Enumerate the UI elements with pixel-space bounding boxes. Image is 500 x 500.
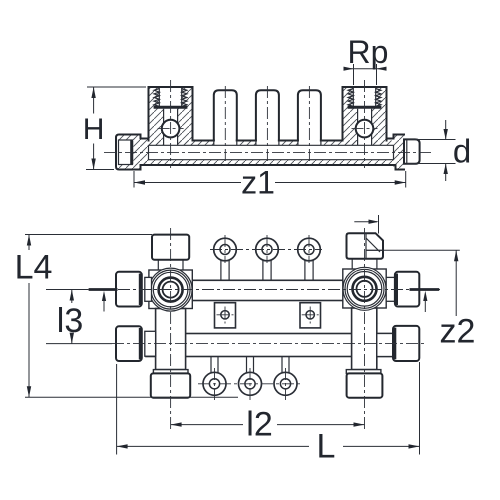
boss vertical centerlines [225, 86, 309, 166]
hatched left tower block [149, 87, 193, 145]
bottom outlet 2 [239, 357, 262, 396]
right assembly top cap [347, 233, 384, 259]
hatched right tower block [343, 87, 387, 145]
bottom outlet 3 [274, 357, 297, 396]
dimension l3 [46, 290, 112, 344]
right tower outline [343, 87, 387, 141]
top outlet 1 [214, 238, 237, 280]
reference thick segment right [410, 288, 440, 291]
dimension L4 [15, 235, 238, 398]
right assembly housing [343, 269, 386, 308]
white channel left tower [164, 107, 178, 146]
bore end walls [149, 145, 394, 159]
svg-text:L4: L4 [15, 249, 53, 287]
right assembly flange [346, 370, 381, 374]
right assembly shaft [352, 308, 377, 370]
white passage gaps under bosses [214, 141, 237, 146]
left cap rail2 [116, 326, 142, 361]
boss 3 [298, 90, 321, 140]
right nub [404, 139, 420, 163]
bar top outline segments [193, 140, 343, 142]
bottom outlets horizontal centerline [198, 383, 302, 385]
left ball [162, 120, 180, 138]
dimension z2 [366, 250, 475, 350]
dimension z1 [134, 165, 406, 201]
boss 1 passage lines [214, 141, 237, 146]
left assembly top cap [152, 235, 189, 260]
bar bottom outline [141, 164, 396, 166]
right assembly bottom cap [347, 373, 383, 397]
right assembly neck [352, 259, 377, 269]
left step edge [141, 138, 149, 140]
boss 2 [256, 90, 279, 140]
top outlets horizontal centerline [210, 249, 322, 251]
svg-text:L: L [317, 428, 336, 466]
left fitting socket [119, 140, 133, 165]
left port boss rail1 [145, 277, 152, 301]
right nub face line [406, 139, 408, 163]
top outlet 2 [256, 238, 279, 280]
right tower vertical centerline [364, 80, 366, 168]
dimension d [407, 120, 471, 181]
left tower outline [149, 87, 193, 141]
hatched bar top wall [149, 141, 394, 146]
left assembly housing [149, 270, 192, 309]
boss 3 passage lines [298, 141, 321, 146]
hatched left end block [116, 135, 149, 170]
l3 reference line left thin [46, 289, 89, 291]
left assembly flange [153, 370, 188, 374]
right port boss rail2 [377, 334, 393, 357]
right ball [356, 120, 374, 138]
svg-text:Rp: Rp [348, 34, 389, 70]
small up arrow right [423, 291, 427, 312]
svg-text:d: d [453, 133, 471, 170]
left socket walls [159, 88, 181, 106]
bottom outlet 1 [203, 357, 226, 396]
left assembly bottom cap [151, 373, 190, 397]
left tower thread left [154, 89, 159, 107]
dimension Rp [344, 34, 389, 85]
right tower thread right [376, 89, 381, 107]
left channel walls [164, 109, 178, 146]
boss 1 [214, 90, 237, 140]
left cap rail1 [116, 272, 142, 307]
svg-text:z2: z2 [440, 313, 476, 351]
hatched bar bottom wall [141, 160, 394, 165]
white socket cavity left tower [159, 88, 181, 107]
right top cap inner lines [366, 233, 383, 259]
rail 2 [146, 334, 392, 357]
rail1 centerline [118, 289, 440, 291]
white socket cavity right tower [353, 88, 375, 107]
right ball horizontal centerline [352, 128, 378, 130]
left assembly neck [158, 260, 183, 270]
bar bore inner walls [149, 145, 394, 159]
l3 reference thick segment left [89, 288, 118, 291]
rail 1 [146, 280, 392, 300]
svg-text:l3: l3 [57, 302, 83, 340]
dimension H [83, 87, 146, 170]
left socket floor [154, 106, 188, 109]
dimension L [117, 362, 420, 466]
z1 extension left [133, 171, 135, 188]
mounting tab 2 [300, 303, 321, 328]
left ball horizontal centerline [158, 128, 184, 130]
right port boss rail1 [386, 277, 395, 301]
left port boss rail2 [145, 331, 156, 356]
right tower thread left [348, 89, 353, 107]
right cap rail2 [393, 326, 419, 361]
right step edge [387, 138, 394, 140]
mounting tab 1 [215, 303, 236, 328]
top outlet vertical centerlines [225, 235, 309, 263]
svg-text:l2: l2 [246, 406, 272, 444]
left tower vertical centerline [170, 80, 172, 168]
small top dimension arrow right cap [354, 215, 379, 234]
left fitting socket end wall [130, 141, 133, 165]
right assembly vertical centerline [364, 228, 366, 430]
dimension l2 [171, 406, 365, 444]
left assembly shaft [156, 309, 186, 370]
left tower thread right [182, 89, 187, 107]
right cap rail1 [395, 272, 419, 307]
svg-text:H: H [83, 113, 105, 146]
right socket walls [353, 88, 375, 106]
left assembly vertical centerline [170, 228, 172, 430]
white channel right tower [358, 107, 372, 146]
right valve rings [343, 267, 386, 310]
small up arrow left [102, 291, 106, 312]
rail2 centerline [112, 343, 424, 345]
right channel walls [358, 109, 372, 146]
left valve rings [149, 268, 192, 311]
right socket floor [348, 106, 382, 109]
hatched right flange [394, 135, 405, 170]
boss 2 passage lines [256, 141, 279, 146]
svg-text:z1: z1 [241, 165, 275, 201]
top outlet 3 [298, 238, 321, 280]
left fitting outline [116, 135, 141, 170]
right flange outline [394, 135, 405, 170]
bottom outlet vertical centerlines [215, 368, 286, 400]
main horizontal centerline top view [104, 151, 433, 153]
